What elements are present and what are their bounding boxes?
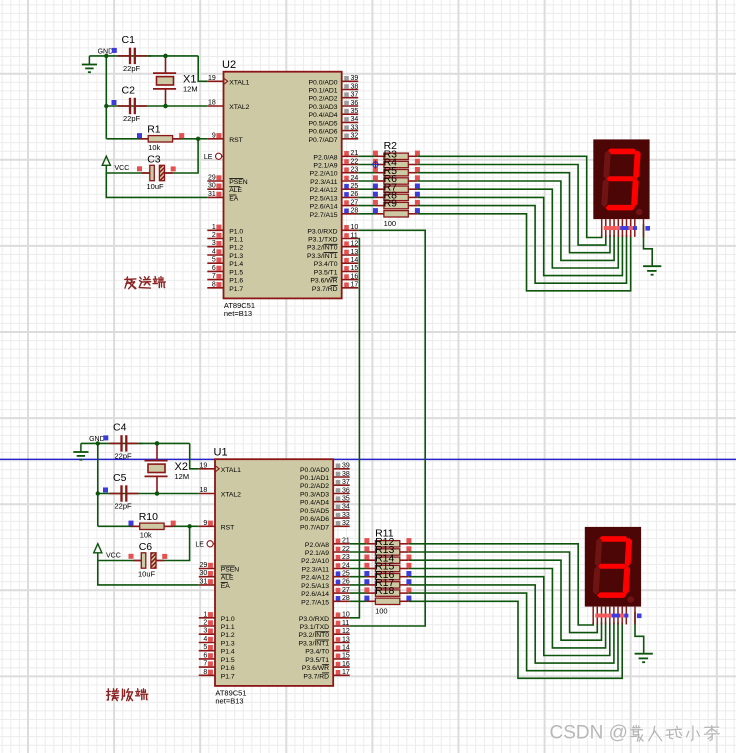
svg-text:22: 22 [342, 546, 350, 553]
pin 18 XTAL2 [207, 100, 249, 112]
svg-text:38: 38 [351, 83, 359, 90]
svg-text:C6: C6 [139, 541, 153, 553]
svg-text:37: 37 [351, 92, 359, 99]
pin 5 P1.4 [199, 644, 235, 656]
wire chip to resistor [350, 576, 367, 578]
logic state square [373, 151, 378, 156]
svg-text:P3.0/RXD: P3.0/RXD [299, 616, 329, 623]
wire resistor to display segment pin [409, 577, 610, 656]
pin 7 P1.6 [199, 661, 235, 673]
svg-text:12: 12 [342, 628, 350, 635]
pin 26 P2.5/A13 [301, 579, 350, 590]
junction node [155, 491, 159, 495]
pin 26 P2.5/A13 [310, 191, 359, 202]
resistor R8 [375, 190, 417, 209]
svg-text:39: 39 [342, 463, 350, 470]
svg-text:10uF: 10uF [147, 182, 165, 191]
logic state square [373, 200, 378, 205]
svg-text:27: 27 [351, 199, 359, 206]
logic state square [415, 159, 420, 164]
svg-text:31: 31 [208, 191, 216, 198]
origin marker crosshair [371, 160, 379, 168]
left rail wire [105, 56, 107, 139]
logic state square [406, 587, 411, 592]
pin 24 P2.3/A11 [302, 562, 350, 573]
pin 36 P0.3/AD3 [300, 487, 350, 498]
wire resistor to display segment pin [417, 173, 610, 253]
svg-text:PSEN: PSEN [229, 179, 248, 186]
svg-text:P0.2/AD2: P0.2/AD2 [309, 96, 338, 103]
pin 36 P0.3/AD3 [309, 100, 359, 111]
svg-text:P3.3/INT1: P3.3/INT1 [298, 641, 329, 648]
pin 27 P2.6/A14 [301, 587, 350, 598]
svg-text:P1.0: P1.0 [229, 228, 243, 235]
svg-text:19: 19 [200, 462, 208, 469]
logic state square [103, 435, 108, 440]
logic state square [364, 546, 369, 551]
pin 8 P1.7 [199, 669, 235, 681]
pin 10 P3.0/RXD [299, 612, 350, 623]
logic state square [415, 192, 420, 197]
svg-text:P2.7/A15: P2.7/A15 [301, 599, 329, 606]
logic state square [364, 555, 369, 560]
pin 6 P1.5 [207, 265, 243, 277]
junction node [163, 54, 167, 58]
pin 28 P2.7/A15 [301, 595, 350, 606]
pin 13 P3.3/INT1 [307, 249, 358, 260]
svg-text:P3.2/INT0: P3.2/INT0 [307, 245, 338, 252]
svg-text:12M: 12M [183, 85, 198, 94]
junction node [187, 524, 191, 528]
svg-text:11: 11 [342, 620, 349, 627]
pin 12 P3.2/INT0 [307, 241, 358, 252]
svg-text:1: 1 [212, 224, 216, 231]
resistor R6 [375, 173, 417, 192]
svg-text:P2.5/A13: P2.5/A13 [310, 195, 338, 202]
svg-text:P3.5/T1: P3.5/T1 [305, 657, 329, 664]
logic state square [364, 563, 369, 568]
svg-text:P2.7/A15: P2.7/A15 [310, 212, 338, 219]
wire resistor to display segment pin [417, 156, 601, 237]
wire RST junction down to cap row [165, 139, 199, 173]
junction node [104, 54, 108, 58]
logic state square [137, 133, 142, 138]
svg-text:34: 34 [351, 116, 359, 123]
svg-text:C4: C4 [113, 422, 127, 434]
svg-text:25: 25 [351, 183, 359, 190]
capacitor C5 [110, 472, 139, 511]
pin 16 P3.6/WR [310, 273, 358, 284]
logic state square [406, 555, 411, 560]
pin 22 P2.1/A9 [305, 546, 350, 557]
svg-text:12M: 12M [175, 472, 190, 481]
svg-text:XTAL1: XTAL1 [221, 467, 241, 474]
svg-text:P0.4/AD4: P0.4/AD4 [309, 112, 338, 119]
logic state square [162, 554, 167, 559]
svg-text:10: 10 [351, 224, 359, 231]
svg-text:P0.1/AD1: P0.1/AD1 [309, 88, 338, 95]
pin 33 P0.6/AD6 [309, 124, 359, 135]
svg-text:9: 9 [203, 520, 207, 527]
svg-text:P1.5: P1.5 [221, 657, 235, 664]
svg-text:P3.3/INT1: P3.3/INT1 [307, 253, 338, 260]
svg-text:P1.4: P1.4 [221, 649, 235, 656]
pin 27 P2.6/A14 [310, 199, 359, 210]
wire resistor to display segment pin [409, 601, 622, 678]
logic state square [373, 175, 378, 180]
svg-text:12: 12 [351, 241, 359, 248]
svg-text:P2.2/A10: P2.2/A10 [310, 171, 338, 178]
pin 39 P0.0/AD0 [309, 75, 359, 86]
svg-text:33: 33 [342, 512, 350, 519]
svg-text:34: 34 [342, 504, 350, 511]
svg-text:28: 28 [351, 208, 359, 215]
pin LE bubble [195, 541, 215, 549]
junction node [155, 441, 159, 445]
pin 29 PSEN [207, 175, 248, 187]
svg-text:P0.5/AD5: P0.5/AD5 [309, 120, 338, 127]
svg-text:28: 28 [342, 595, 350, 602]
svg-text:29: 29 [200, 562, 208, 569]
svg-text:8: 8 [212, 281, 216, 288]
svg-text:5: 5 [203, 644, 207, 651]
display pins [593, 607, 635, 625]
pin 21 P2.0/A8 [305, 538, 350, 549]
svg-text:RST: RST [229, 137, 243, 144]
svg-text:P2.1/A9: P2.1/A9 [313, 163, 337, 170]
logic state square [103, 488, 108, 493]
wire VCC row to cap [106, 172, 150, 174]
crystal X2 [145, 443, 190, 493]
resistor R13 [366, 544, 408, 563]
IC U2 AT89C51 body [222, 59, 342, 318]
junction node [163, 104, 167, 108]
svg-text:4: 4 [203, 636, 207, 643]
svg-text:P3.1/TXD: P3.1/TXD [308, 237, 338, 244]
wire resistor to display segment pin [417, 214, 630, 291]
svg-text:15: 15 [342, 653, 350, 660]
logic state square [415, 200, 420, 205]
svg-text:P2.4/A12: P2.4/A12 [301, 575, 329, 582]
logic state square [406, 596, 411, 601]
svg-text:U1: U1 [214, 447, 228, 459]
pin 19 XTAL1 [207, 75, 249, 87]
svg-text:PSEN: PSEN [221, 567, 240, 574]
wire top RXD(P3.0) to bottom TXD(P3.1) [350, 230, 426, 626]
pin 9 RST [207, 132, 243, 144]
pin 21 P2.0/A8 [313, 150, 358, 161]
display pins [602, 219, 644, 237]
svg-text:P3.0/RXD: P3.0/RXD [307, 228, 337, 235]
resistor R12 [366, 536, 408, 555]
svg-text:26: 26 [351, 191, 359, 198]
wire corner to XTAL1 pin [198, 56, 207, 81]
svg-text:36: 36 [342, 487, 350, 494]
svg-text:16: 16 [342, 661, 350, 668]
svg-text:net=B13: net=B13 [215, 697, 243, 706]
svg-text:P1.6: P1.6 [229, 278, 243, 285]
svg-text:8: 8 [203, 669, 207, 676]
pin 30 ALE [207, 183, 242, 195]
svg-text:14: 14 [342, 645, 350, 652]
pin 38 P0.1/AD1 [300, 471, 350, 482]
svg-text:P1.7: P1.7 [229, 286, 243, 293]
svg-text:P1.4: P1.4 [229, 261, 243, 268]
svg-text:P1.2: P1.2 [229, 245, 243, 252]
pin 22 P2.1/A9 [313, 158, 358, 169]
svg-text:ALE: ALE [229, 187, 242, 194]
svg-text:P2.0/A8: P2.0/A8 [305, 542, 329, 549]
logic state square [112, 100, 117, 105]
svg-text:P1.6: P1.6 [221, 665, 235, 672]
circuit label 发送端 [125, 277, 136, 289]
svg-text:10uF: 10uF [138, 570, 156, 579]
wire resistor to display segment pin [409, 585, 614, 663]
svg-text:P2.5/A13: P2.5/A13 [301, 583, 329, 590]
resistor R9 [375, 198, 417, 217]
svg-text:29: 29 [208, 175, 216, 182]
pin 18 XTAL2 [199, 487, 241, 499]
wire display common to ground [644, 224, 653, 265]
svg-text:16: 16 [351, 273, 359, 280]
7-segment display bottom (showing 3) [585, 527, 641, 607]
resistor R18 [366, 585, 408, 604]
pin 9 RST [199, 520, 235, 532]
svg-text:P2.3/A11: P2.3/A11 [302, 567, 330, 574]
pin 34 P0.5/AD5 [300, 504, 350, 515]
svg-text:P0.1/AD1: P0.1/AD1 [300, 475, 329, 482]
pin 12 P3.2/INT0 [298, 628, 349, 639]
power VCC [94, 544, 121, 561]
resistor R17 [366, 577, 408, 596]
svg-text:GND: GND [98, 49, 114, 56]
resistor R5 [375, 165, 417, 184]
svg-text:P0.6/AD6: P0.6/AD6 [309, 129, 338, 136]
pin 23 P2.2/A10 [301, 554, 350, 565]
svg-text:19: 19 [208, 75, 216, 82]
svg-text:21: 21 [342, 538, 350, 545]
wire chip to resistor [350, 551, 367, 553]
svg-text:27: 27 [342, 587, 350, 594]
svg-text:13: 13 [342, 636, 350, 643]
pin 14 P3.4/T0 [305, 645, 350, 656]
wire chip to resistor [350, 600, 367, 602]
svg-text:38: 38 [342, 471, 350, 478]
svg-text:P0.7/AD7: P0.7/AD7 [309, 137, 338, 144]
svg-text:22: 22 [351, 158, 359, 165]
pin 33 P0.6/AD6 [300, 512, 350, 523]
junction node [155, 441, 159, 445]
pin 29 PSEN [199, 562, 240, 574]
svg-text:1: 1 [203, 611, 207, 618]
wire resistor to display segment pin [409, 593, 618, 671]
svg-text:6: 6 [212, 265, 216, 272]
svg-text:18: 18 [200, 487, 208, 494]
svg-text:24: 24 [351, 175, 359, 182]
wire chip to resistor [350, 568, 367, 570]
svg-text:C2: C2 [122, 84, 136, 96]
wire VCC rail down to EA row [106, 173, 207, 197]
capacitor C1 [118, 34, 147, 73]
resistor R14 [366, 552, 408, 571]
pin 1 P1.0 [199, 611, 235, 623]
resistor R16 [366, 569, 408, 588]
logic state square [406, 579, 411, 584]
svg-text:21: 21 [351, 150, 359, 157]
svg-text:P2.6/A14: P2.6/A14 [301, 591, 329, 598]
logic state square [406, 546, 411, 551]
ground symbol [643, 266, 661, 275]
ground symbol [635, 654, 653, 663]
ground symbol [82, 56, 97, 72]
svg-text:22pF: 22pF [115, 502, 133, 511]
pin LE bubble [204, 153, 224, 161]
pin 11 P3.1/TXD [300, 620, 350, 631]
svg-text:P3.6/WR: P3.6/WR [302, 665, 329, 672]
wire chip to resistor [358, 196, 375, 198]
svg-text:VCC: VCC [115, 165, 130, 172]
svg-text:25: 25 [342, 571, 350, 578]
wire resistor to display segment pin [409, 552, 597, 633]
svg-text:P1.3: P1.3 [229, 253, 243, 260]
svg-text:22pF: 22pF [115, 451, 133, 460]
svg-text:P0.3/AD3: P0.3/AD3 [309, 104, 338, 111]
left rail wire [97, 443, 99, 526]
pin 3 P1.2 [207, 240, 243, 252]
svg-text:C3: C3 [147, 153, 161, 165]
pin 17 P3.7/RD [303, 669, 349, 680]
logic state square [364, 587, 369, 592]
power VCC [102, 156, 129, 173]
junction node [163, 104, 167, 108]
svg-text:P2.0/A8: P2.0/A8 [313, 154, 337, 161]
ground symbol [73, 443, 88, 459]
watermark CSDN [550, 723, 629, 745]
wire RST row [106, 138, 198, 140]
svg-text:P0.5/AD5: P0.5/AD5 [300, 508, 329, 515]
wire XTAL2 row [106, 105, 165, 107]
resistor R2 [375, 140, 417, 159]
svg-text:35: 35 [342, 496, 350, 503]
svg-text:P0.2/AD2: P0.2/AD2 [300, 483, 329, 490]
svg-text:7: 7 [203, 661, 207, 668]
svg-text:P3.1/TXD: P3.1/TXD [300, 624, 330, 631]
wire chip to resistor [358, 205, 375, 207]
svg-text:P2.6/A14: P2.6/A14 [310, 204, 338, 211]
svg-text:7: 7 [212, 273, 216, 280]
svg-text:26: 26 [342, 579, 350, 586]
logic state square [406, 563, 411, 568]
svg-text:5: 5 [212, 257, 216, 264]
junction node [96, 491, 100, 495]
wire resistor to display segment pin [417, 197, 622, 275]
logic state squares on display pins [595, 614, 641, 619]
wire RST row [98, 525, 190, 527]
wire resistor to display segment pin [409, 544, 593, 625]
logic state square [373, 167, 378, 172]
logic state squares on display pins [604, 226, 650, 231]
svg-text:39: 39 [351, 75, 359, 82]
wire chip to resistor [358, 164, 375, 166]
svg-text:11: 11 [351, 232, 358, 239]
pin 32 P0.7/AD7 [309, 133, 359, 144]
resistor R1 [139, 124, 181, 152]
wire chip to resistor [350, 559, 367, 561]
junction node [96, 441, 100, 445]
svg-text:P3.2/INT0: P3.2/INT0 [298, 632, 329, 639]
svg-text:31: 31 [200, 578, 208, 585]
svg-text:P1.5: P1.5 [229, 269, 243, 276]
svg-text:P3.4/T0: P3.4/T0 [314, 261, 338, 268]
pin 15 P3.5/T1 [305, 653, 350, 664]
7-segment display top (showing 3) [593, 139, 649, 219]
pin 11 P3.1/TXD [308, 232, 358, 243]
svg-text:23: 23 [342, 554, 350, 561]
wire display common to ground [635, 612, 644, 653]
svg-text:GND: GND [89, 436, 105, 443]
svg-text:X1: X1 [183, 73, 196, 85]
svg-text:P1.7: P1.7 [221, 673, 235, 680]
pin 15 P3.5/T1 [314, 265, 359, 276]
crystal X1 [153, 56, 198, 106]
pin 32 P0.7/AD7 [300, 520, 350, 531]
pin 25 P2.4/A12 [301, 571, 350, 582]
wire top TXD(P3.1) to bottom RXD(P3.0) [350, 239, 360, 618]
pin 2 P1.1 [199, 620, 235, 632]
svg-text:10k: 10k [140, 530, 152, 539]
svg-text:LE: LE [195, 542, 204, 549]
junction node [104, 104, 108, 108]
wire VCC rail down to EA row [98, 561, 199, 585]
wire resistor to display segment pin [417, 165, 605, 246]
svg-text:100: 100 [384, 219, 397, 228]
svg-text:23: 23 [351, 167, 359, 174]
wire chip to resistor [358, 188, 375, 190]
pin 34 P0.5/AD5 [309, 116, 359, 127]
logic state square [415, 151, 420, 156]
pin 1 P1.0 [207, 224, 243, 236]
svg-text:P1.1: P1.1 [229, 237, 243, 244]
pin 3 P1.2 [199, 628, 235, 640]
pin 38 P0.1/AD1 [309, 83, 359, 94]
svg-text:P1.1: P1.1 [221, 624, 235, 631]
pin 30 ALE [199, 570, 234, 582]
svg-text:P2.1/A9: P2.1/A9 [305, 550, 329, 557]
svg-text:C1: C1 [122, 34, 136, 46]
logic state square [129, 521, 134, 526]
logic state square [171, 521, 176, 526]
capacitor C2 [118, 84, 147, 123]
svg-text:RST: RST [221, 524, 235, 531]
watermark CJK [632, 726, 645, 742]
wire RST junction down to cap row [156, 526, 190, 560]
wire XTAL2 row [98, 493, 157, 495]
pin 4 P1.3 [199, 636, 235, 648]
svg-text:100: 100 [375, 606, 388, 615]
svg-text:32: 32 [342, 520, 350, 527]
svg-text:3: 3 [212, 240, 216, 247]
logic state square [373, 159, 378, 164]
svg-text:2: 2 [203, 620, 207, 627]
svg-text:P1.3: P1.3 [221, 641, 235, 648]
logic state square [137, 166, 142, 171]
svg-text:30: 30 [208, 183, 216, 190]
pin 14 P3.4/T0 [314, 257, 359, 268]
pin 16 P3.6/WR [302, 661, 350, 672]
svg-text:R18: R18 [375, 585, 394, 597]
svg-text:36: 36 [351, 100, 359, 107]
svg-text:P0.0/AD0: P0.0/AD0 [309, 79, 338, 86]
